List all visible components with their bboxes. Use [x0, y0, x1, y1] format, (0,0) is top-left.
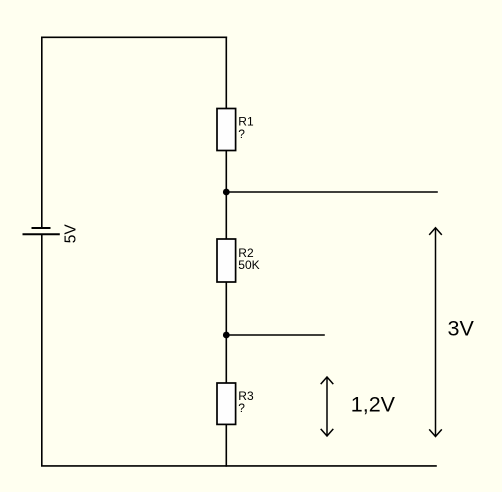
- wire top from battery to R1 branch: [42, 37, 227, 228]
- resistor R2: [217, 239, 236, 282]
- wire R2 to R3: [225, 282, 227, 383]
- node B junction dot: [223, 332, 230, 339]
- svg-text:5V: 5V: [62, 224, 79, 244]
- measurement arrow 1,2V: [321, 377, 334, 436]
- wire node A to right: [226, 191, 437, 193]
- wire node B to right: [226, 334, 324, 336]
- wire bottom from battery to R3 branch: [42, 234, 436, 466]
- battery V1 5V: [23, 228, 60, 234]
- svg-text:1,2V: 1,2V: [351, 393, 396, 417]
- svg-text:3V: 3V: [448, 316, 475, 340]
- wire R1 to R2: [225, 151, 227, 240]
- svg-text:?: ?: [238, 401, 245, 415]
- wire R3 to bottom: [225, 424, 227, 466]
- resistor R3: [217, 383, 236, 424]
- node A junction dot: [223, 189, 230, 196]
- resistor R1: [217, 109, 236, 151]
- measurement arrow 3V: [429, 228, 442, 437]
- wire from top to R1: [225, 37, 227, 108]
- svg-text:50K: 50K: [238, 258, 259, 272]
- svg-text:?: ?: [238, 127, 245, 141]
